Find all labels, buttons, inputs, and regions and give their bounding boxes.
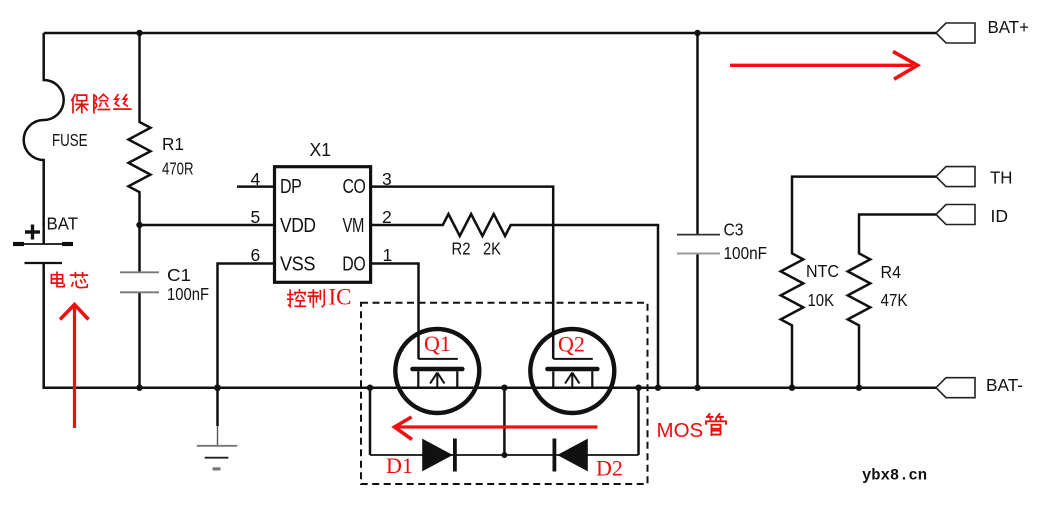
- svg-text:BAT: BAT: [47, 214, 79, 234]
- svg-text:BAT+: BAT+: [988, 17, 1030, 37]
- svg-text:ID: ID: [991, 206, 1009, 226]
- svg-text:D1: D1: [386, 453, 413, 478]
- svg-text:D2: D2: [596, 456, 623, 481]
- svg-text:2K: 2K: [483, 238, 501, 258]
- svg-text:X1: X1: [310, 139, 332, 160]
- svg-text:ybx8.cn: ybx8.cn: [862, 467, 927, 485]
- svg-text:VM: VM: [343, 215, 365, 237]
- svg-text:3: 3: [382, 169, 392, 189]
- svg-text:DP: DP: [280, 176, 302, 198]
- svg-text:CO: CO: [343, 176, 366, 198]
- svg-text:10K: 10K: [808, 290, 835, 310]
- svg-text:VDD: VDD: [280, 215, 316, 237]
- svg-text:100nF: 100nF: [724, 243, 768, 263]
- svg-text:IC: IC: [329, 285, 352, 310]
- svg-text:MOS: MOS: [657, 419, 704, 442]
- svg-text:5: 5: [251, 207, 261, 227]
- svg-text:BAT-: BAT-: [986, 375, 1023, 395]
- svg-text:C3: C3: [724, 219, 744, 239]
- svg-text:100nF: 100nF: [167, 284, 209, 304]
- svg-text:Q2: Q2: [558, 332, 585, 357]
- svg-text:6: 6: [251, 245, 261, 265]
- svg-text:4: 4: [251, 169, 261, 189]
- svg-text:VSS: VSS: [280, 253, 315, 275]
- svg-text:TH: TH: [990, 167, 1013, 187]
- svg-text:FUSE: FUSE: [52, 130, 88, 150]
- svg-text:47K: 47K: [881, 290, 908, 310]
- svg-text:DO: DO: [342, 253, 365, 275]
- svg-text:R2: R2: [452, 238, 471, 258]
- svg-text:470R: 470R: [162, 159, 194, 179]
- svg-text:R1: R1: [162, 134, 184, 154]
- svg-text:R4: R4: [881, 262, 902, 282]
- svg-text:1: 1: [383, 245, 393, 265]
- svg-text:2: 2: [382, 207, 392, 227]
- svg-text:Q1: Q1: [424, 331, 451, 356]
- svg-text:C1: C1: [167, 265, 191, 285]
- svg-text:NTC: NTC: [806, 261, 839, 281]
